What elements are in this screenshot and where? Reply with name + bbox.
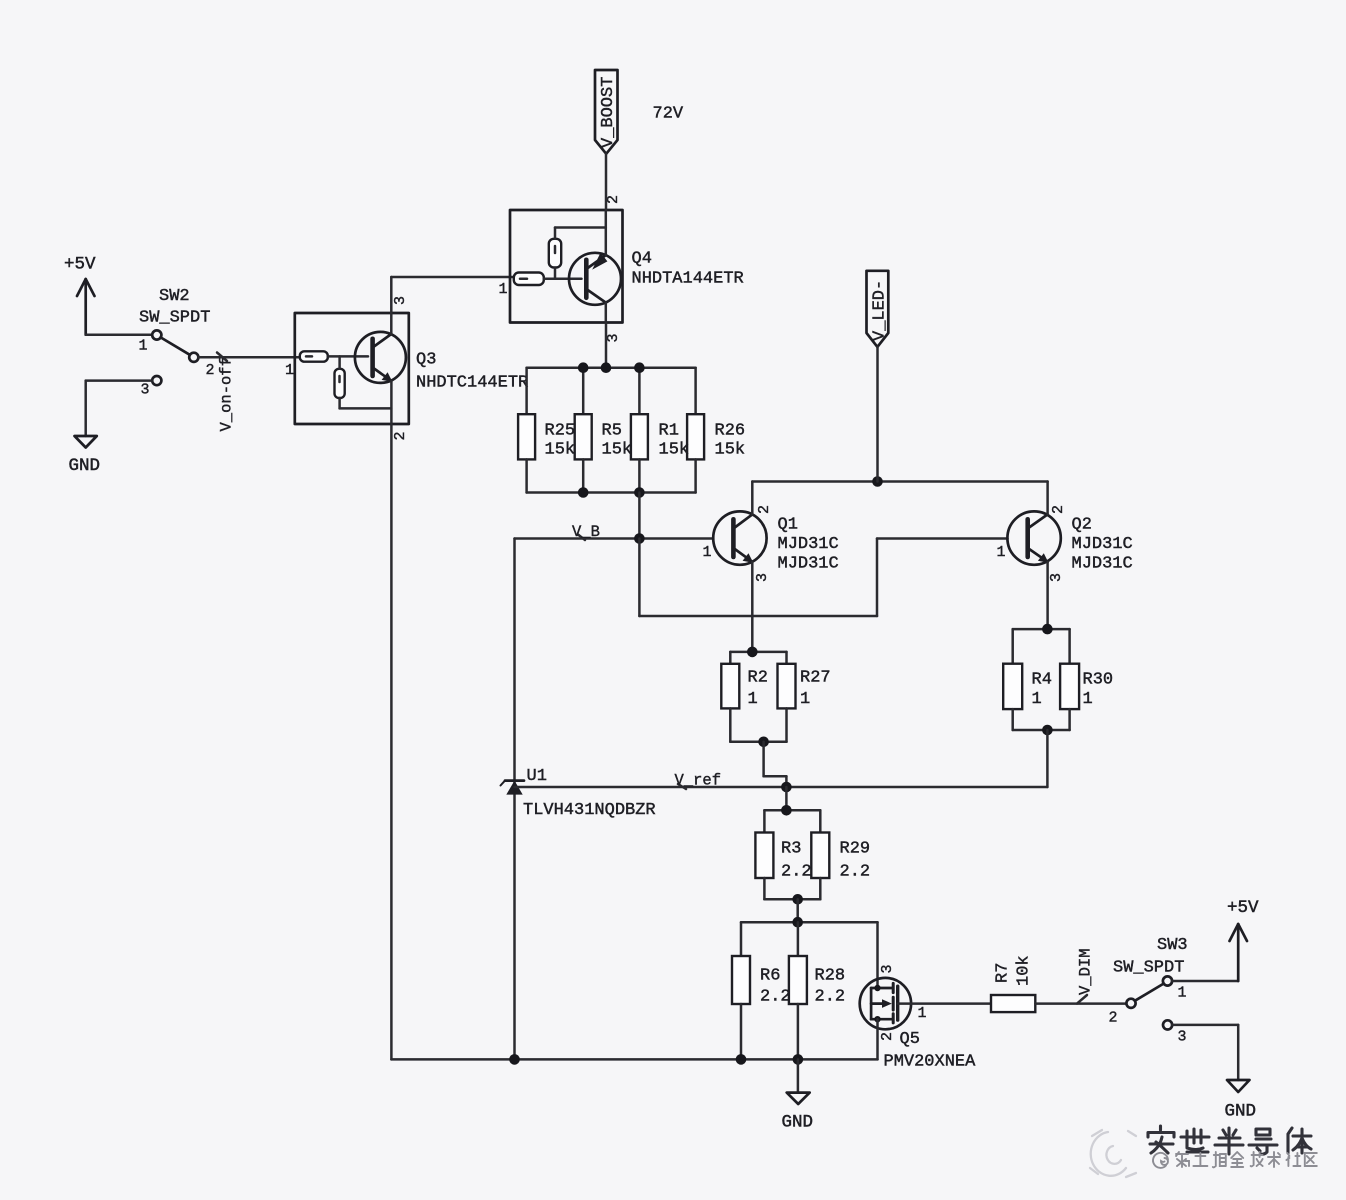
svg-text:15k: 15k <box>545 441 576 460</box>
svg-text:R5: R5 <box>602 422 622 441</box>
Q3 transistor symbol <box>355 332 406 383</box>
wire R27 bottom stub <box>785 708 788 741</box>
resistor R29 2.2 body <box>811 833 829 879</box>
ground (left) <box>75 436 97 448</box>
junction top rail Q4 feed <box>601 362 612 373</box>
svg-text:1: 1 <box>285 362 294 379</box>
svg-text:R4: R4 <box>1032 671 1052 690</box>
wire R25 bottom stub <box>525 459 528 492</box>
svg-text:MJD31C: MJD31C <box>778 535 839 554</box>
wire Q2 collector up <box>1046 482 1049 515</box>
Q4 bias resistor to emitter wire <box>555 226 606 229</box>
wire V_ref jog horizontal <box>764 775 787 778</box>
wire V_ref jog down <box>785 776 788 787</box>
svg-text:3: 3 <box>1178 1029 1187 1046</box>
svg-text:72V: 72V <box>653 105 684 124</box>
transistor Q3 NHDTC144ETR box <box>295 313 409 424</box>
wire bottom ground rail <box>391 1058 877 1061</box>
svg-text:GND: GND <box>782 1113 814 1133</box>
Q4 bias resistor top stub <box>554 228 557 239</box>
svg-text:1: 1 <box>499 281 508 298</box>
Q4 internal bias resistor <box>549 239 561 268</box>
wire R7 to SW3 pin2 (net V_DIM) <box>1035 1002 1126 1005</box>
wire to GND symbol middle <box>797 1059 800 1092</box>
svg-text:3: 3 <box>1048 573 1065 582</box>
svg-text:+5V: +5V <box>1227 898 1259 918</box>
transistor Q2 MJD31C symbol <box>1007 511 1060 564</box>
junction R3/R29 top <box>781 805 792 816</box>
wire V_B horizontal to Q1 base <box>515 537 714 540</box>
wire Q4 emitter up inside box <box>605 210 608 255</box>
shunt reference U1 TLVH431NQDBZR <box>501 781 525 795</box>
svg-text:2: 2 <box>605 195 622 204</box>
wire Q5 source down to bottom rail <box>876 1019 879 1059</box>
wire R3 top stub <box>763 810 766 832</box>
wire R30 bottom stub <box>1068 709 1071 730</box>
svg-text:Q5: Q5 <box>900 1030 920 1049</box>
Q3 base wire <box>328 355 368 358</box>
wire R1 top stub <box>638 368 641 415</box>
svg-text:10k: 10k <box>1015 955 1034 986</box>
wire V_BOOST to Q4 pin2 <box>605 154 608 210</box>
svg-text:V_on-off: V_on-off <box>218 357 236 431</box>
wire Q1 emitter down to R2/R27 <box>751 562 754 652</box>
wire R25 top stub <box>525 368 528 415</box>
power +5V (right) <box>1230 924 1248 981</box>
svg-text:3: 3 <box>141 382 150 399</box>
wire R3/R29 top rail <box>764 809 820 812</box>
resistor R25 15k body <box>518 414 535 459</box>
watermark text @稀土掘金技术社区 <box>1153 1152 1317 1168</box>
svg-text:1: 1 <box>918 1005 927 1022</box>
svg-text:Q3: Q3 <box>416 351 436 370</box>
wire R28 top stub <box>797 922 800 956</box>
wire Q3 collector up <box>390 277 393 334</box>
net label V_B tick <box>578 535 585 541</box>
wire R29 bottom stub <box>819 878 822 899</box>
svg-text:SW2: SW2 <box>159 287 190 306</box>
svg-text:2: 2 <box>392 431 409 440</box>
junction R2/R27 top <box>747 647 758 658</box>
svg-text:U1: U1 <box>527 767 547 786</box>
wire R4/R30 bottom rail <box>1013 729 1070 732</box>
svg-text:SW_SPDT: SW_SPDT <box>1113 959 1184 978</box>
svg-text:3: 3 <box>392 296 409 305</box>
svg-text:SW_SPDT: SW_SPDT <box>139 309 210 328</box>
Q3 internal bias resistor <box>335 369 345 398</box>
wire Q5 gate to R7 <box>898 1002 991 1005</box>
svg-text:PMV20XNEA: PMV20XNEA <box>884 1053 977 1072</box>
wire R4/R30 bottom to V_ref <box>1046 730 1049 787</box>
wire R2 bottom stub <box>729 708 732 741</box>
Q3 bias resistor bottom stub <box>338 398 341 408</box>
wire R1 bottom stub <box>638 459 641 492</box>
power flag V_LED- <box>867 271 889 347</box>
wire R27 top stub <box>785 652 788 664</box>
wire V_B corner down through U1 to bottom rail <box>513 539 516 1060</box>
resistor R28 2.2 body <box>789 956 807 1004</box>
svg-text:V_DIM: V_DIM <box>1077 948 1095 995</box>
resistor R30 1 body <box>1060 664 1079 709</box>
svg-text:1: 1 <box>1083 690 1093 709</box>
wire resistor bank top rail <box>527 366 696 369</box>
svg-text:2: 2 <box>756 505 773 514</box>
junction V_LED- rail <box>872 476 883 487</box>
wire rail down to Q5 drain <box>876 922 879 988</box>
svg-text:GND: GND <box>69 456 101 476</box>
junction V_ref <box>781 782 792 793</box>
wire to Q2 base <box>877 537 1008 540</box>
svg-text:Q2: Q2 <box>1072 516 1092 535</box>
wire V_ref horizontal <box>515 786 1048 789</box>
svg-text:1: 1 <box>703 544 712 561</box>
wire Q2 emitter down to R4/R30 <box>1046 562 1049 629</box>
svg-text:SW3: SW3 <box>1157 936 1188 955</box>
svg-text:2: 2 <box>1050 505 1067 514</box>
wire R2 top stub <box>729 652 732 664</box>
wire R4 bottom stub <box>1011 709 1014 730</box>
ground (right) <box>1227 1080 1250 1092</box>
Q3 bias resistor top stub <box>338 356 341 368</box>
resistor R27 1 body <box>778 664 796 709</box>
junction top rail R1 <box>634 362 645 373</box>
svg-text:2.2: 2.2 <box>781 863 812 882</box>
wire V_LED- to rail <box>876 347 879 482</box>
resistor R26 15k body <box>687 414 704 459</box>
resistor R5 15k body <box>575 414 592 459</box>
wire SW2 pin2 to Q3 base (net V_on-off) <box>198 356 300 359</box>
svg-text:R7: R7 <box>994 963 1013 983</box>
svg-text:15k: 15k <box>602 441 633 460</box>
wire SW3 pin3 to GND <box>1172 1024 1238 1027</box>
wire SW2 pin3 to GND <box>86 379 153 382</box>
wire R30 top stub <box>1068 629 1071 664</box>
transistor Q4 NHDTA144ETR box <box>510 210 623 323</box>
svg-text:R26: R26 <box>715 422 746 441</box>
net label V_on-off tick <box>217 353 227 362</box>
junction bottom rail R1 <box>634 487 645 498</box>
svg-text:R25: R25 <box>545 422 576 441</box>
svg-text:R29: R29 <box>840 840 871 859</box>
wire down to GND symbol <box>84 381 87 436</box>
svg-text:R27: R27 <box>800 669 831 688</box>
svg-text:R6: R6 <box>760 967 780 986</box>
junction bottom rail R5 <box>578 487 589 498</box>
watermark text 安世半导体 <box>1148 1126 1311 1154</box>
svg-text:R30: R30 <box>1083 671 1114 690</box>
junction R4/R30 bottom <box>1042 725 1053 736</box>
wire R4/R30 top rail <box>1013 628 1070 631</box>
junction top rail R5 <box>578 362 589 373</box>
wire R26 bottom stub <box>694 459 697 492</box>
junction R6/R28 top <box>792 917 803 928</box>
junction V_B <box>634 533 645 544</box>
resistor R1 15k body <box>631 414 648 459</box>
svg-text:2: 2 <box>879 1032 896 1041</box>
Q4 transistor symbol <box>569 253 621 305</box>
svg-text:Q4: Q4 <box>632 250 652 269</box>
resistor R4 1 body <box>1003 664 1022 709</box>
svg-text:2.2: 2.2 <box>760 988 791 1007</box>
wire Q1/Q2 collector rail <box>752 480 1047 483</box>
svg-text:V_LED-: V_LED- <box>871 280 890 341</box>
junction bottom rail R28 <box>793 1054 804 1065</box>
wire Q3 emitter long vertical to bottom rail <box>390 381 393 1060</box>
wire R6/R28 top rail <box>741 921 878 924</box>
svg-text:V_B: V_B <box>572 523 600 541</box>
junction R2/R27 bottom <box>758 737 769 748</box>
svg-text:NHDTA144ETR: NHDTA144ETR <box>632 270 744 289</box>
svg-text:NHDTC144ETR: NHDTC144ETR <box>416 374 528 393</box>
wire R5 bottom stub <box>582 459 585 492</box>
svg-text:2.2: 2.2 <box>815 988 846 1007</box>
svg-text:2: 2 <box>1109 1010 1118 1027</box>
svg-text:TLVH431NQDBZR: TLVH431NQDBZR <box>523 801 656 820</box>
wire R28 bottom stub <box>797 1004 800 1059</box>
svg-text:2.2: 2.2 <box>840 863 871 882</box>
power flag V_BOOST <box>595 70 618 154</box>
svg-text:1: 1 <box>800 690 810 709</box>
power +5V (left) <box>77 279 95 335</box>
transistor Q1 MJD31C symbol <box>713 511 766 564</box>
Q3 internal base resistor <box>300 351 328 361</box>
wire V_ref down to R3/R29 <box>785 787 788 810</box>
wire bank bottom to V_B <box>638 493 641 539</box>
svg-text:3: 3 <box>754 573 771 582</box>
wire +5V to SW2 pin1 <box>86 333 152 336</box>
svg-text:R28: R28 <box>815 967 846 986</box>
resistor R3 2.2 body <box>755 833 773 879</box>
junction bottom rail U1 <box>509 1054 520 1065</box>
resistor R7 10k <box>991 995 1035 1012</box>
wire R5 top stub <box>582 368 585 415</box>
svg-text:V_BOOST: V_BOOST <box>599 77 618 148</box>
Q4 internal base resistor <box>514 273 544 286</box>
resistor R2 1 body <box>721 664 739 709</box>
svg-text:15k: 15k <box>659 441 690 460</box>
svg-text:3: 3 <box>879 964 896 973</box>
svg-text:GND: GND <box>1225 1102 1257 1122</box>
transistor Q5 PMV20XNEA mosfet symbol <box>860 978 911 1029</box>
wire R29 top stub <box>819 810 822 832</box>
net label V_ref tick <box>678 784 686 789</box>
watermark logo scribble <box>1090 1130 1136 1177</box>
wire Q3 collector to Q4 pin1 <box>391 276 514 279</box>
wire V_B branch up to Q2 <box>876 539 879 617</box>
wire R3/R29 to R6/R28 node <box>796 899 799 922</box>
wire R2/R27 top rail <box>730 651 786 654</box>
svg-text:MJD31C: MJD31C <box>1072 535 1133 554</box>
Q4 bias resistor bottom stub <box>554 268 557 279</box>
wire V_B branch horizontal <box>639 615 877 618</box>
svg-text:1: 1 <box>139 338 148 355</box>
resistor R6 2.2 body <box>732 956 750 1004</box>
wire Q4 collector down inside box <box>605 303 608 323</box>
switch SW3 <box>1126 976 1172 1029</box>
svg-text:R3: R3 <box>781 840 801 859</box>
junction R3/R29 bottom <box>792 894 803 905</box>
switch SW2 <box>152 330 198 385</box>
svg-text:R1: R1 <box>659 422 679 441</box>
svg-text:15k: 15k <box>715 441 746 460</box>
svg-text:2: 2 <box>206 362 215 379</box>
junction bottom rail R6 <box>736 1054 747 1065</box>
wire R26 top stub <box>694 368 697 415</box>
junction R4/R30 top <box>1042 624 1053 635</box>
wire down to GND right <box>1237 1025 1240 1080</box>
svg-text:MJD31C: MJD31C <box>1072 555 1133 574</box>
wire R4 top stub <box>1011 629 1014 664</box>
svg-text:1: 1 <box>1032 690 1042 709</box>
svg-text:V_ref: V_ref <box>675 772 722 790</box>
wire R6 top stub <box>740 922 743 956</box>
svg-text:Q1: Q1 <box>778 516 798 535</box>
wire Q1 collector up <box>751 482 754 515</box>
Q4 base wire <box>544 277 582 280</box>
wire R6 bottom stub <box>740 1004 743 1059</box>
svg-text:3: 3 <box>605 333 622 342</box>
ground (middle) <box>787 1093 810 1104</box>
Q3 bias resistor to emitter wire <box>340 407 392 410</box>
svg-text:1: 1 <box>1178 985 1187 1002</box>
svg-text:1: 1 <box>997 544 1006 561</box>
wire R2/R27 to V_ref jog down <box>762 742 765 776</box>
wire SW3 pin1 to +5V <box>1172 980 1238 983</box>
svg-text:R2: R2 <box>748 669 768 688</box>
wire R2/R27 bottom rail <box>730 741 786 744</box>
net label V_DIM tick <box>1077 995 1087 1004</box>
wire R3/R29 bottom rail <box>764 898 820 901</box>
svg-text:MJD31C: MJD31C <box>778 555 839 574</box>
svg-text:1: 1 <box>748 690 758 709</box>
svg-text:+5V: +5V <box>64 255 96 275</box>
wire R3 bottom stub <box>763 878 766 899</box>
wire V_B branch down <box>638 539 641 617</box>
wire Q4 pin3 to resistor bank <box>605 323 608 368</box>
wire resistor bank bottom rail <box>527 491 696 494</box>
